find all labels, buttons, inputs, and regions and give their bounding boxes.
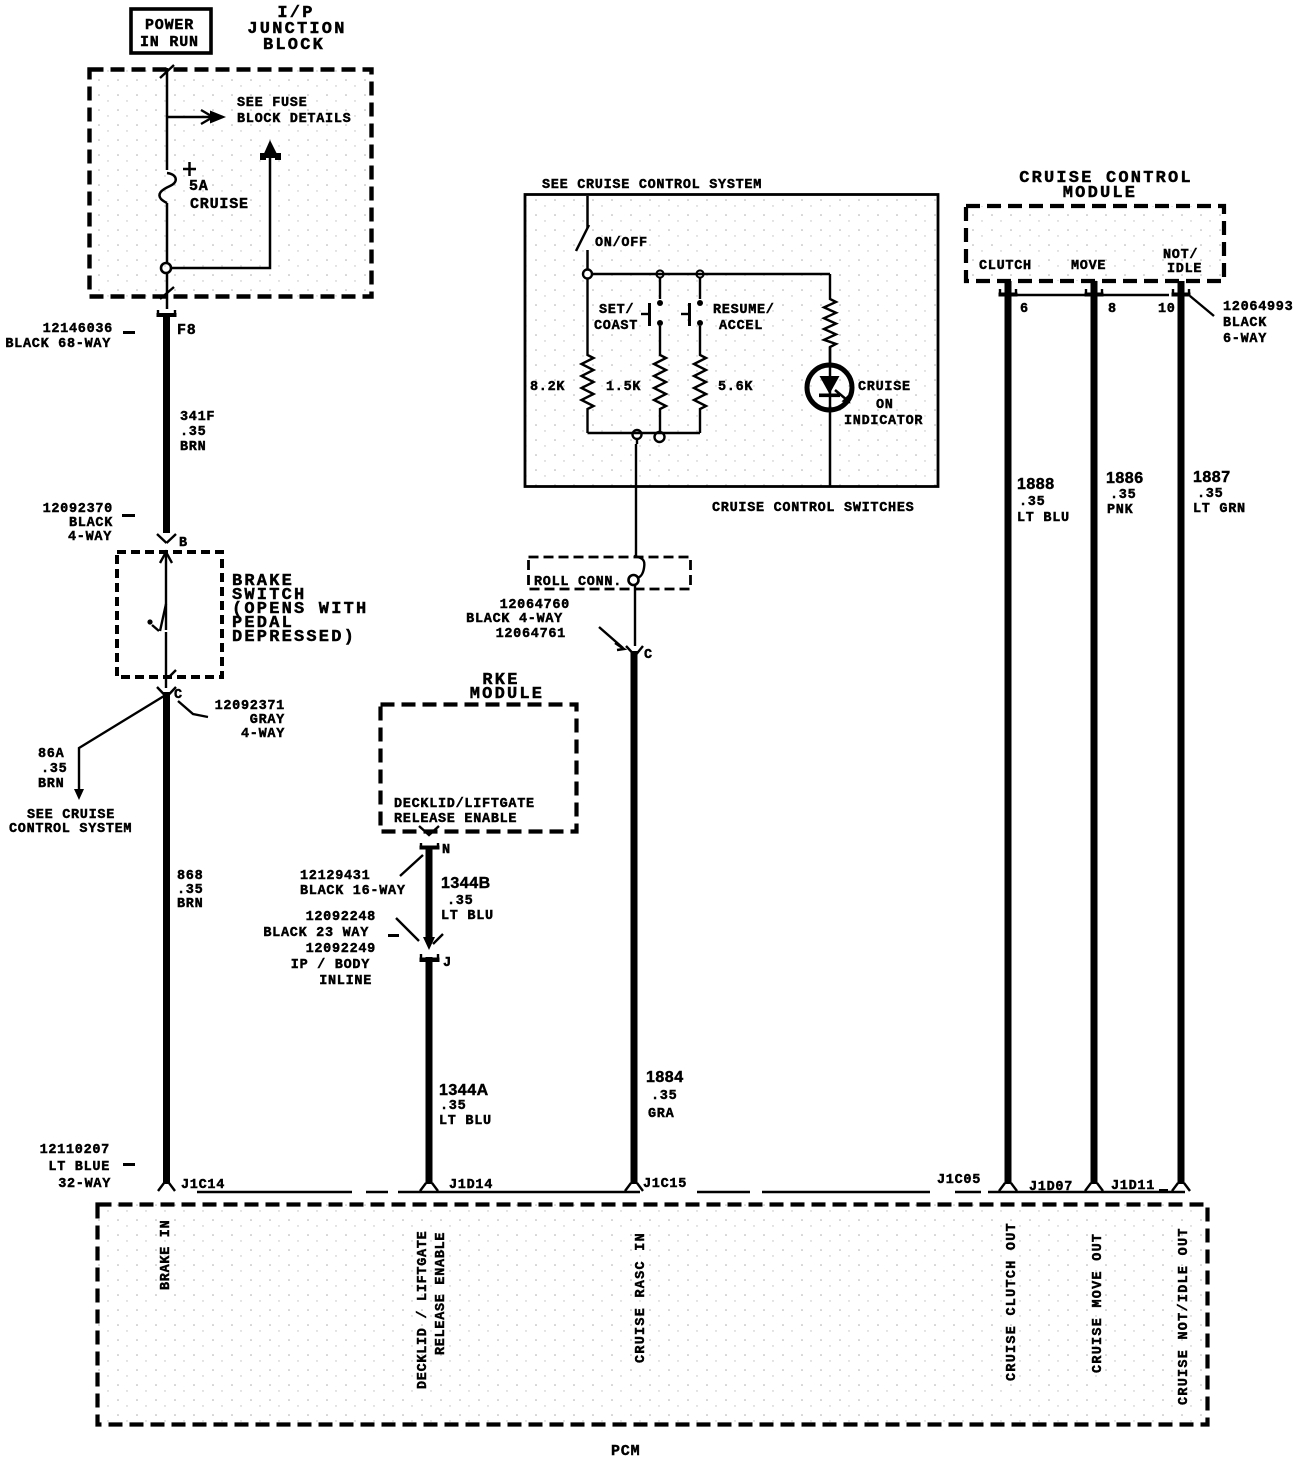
svg-text:RELEASE ENABLE: RELEASE ENABLE [394,812,517,827]
svg-text:12092370: 12092370 [43,502,113,517]
label 12146036 BLACK 68-WAY [5,322,135,352]
svg-text:12146036: 12146036 [43,322,113,337]
svg-text:NOT/: NOT/ [1163,248,1198,263]
svg-text:.35: .35 [1110,488,1136,503]
PCM dashed box [98,1205,1208,1425]
pin B of brake switch [157,534,188,551]
svg-text:CRUISE RASC IN: CRUISE RASC IN [634,1232,649,1363]
svg-text:LT BLUE: LT BLUE [48,1160,110,1175]
svg-text:ACCEL: ACCEL [719,319,763,334]
wire: LED to box bottom [829,406,832,486]
wire: roll connector to pin C [634,584,636,646]
svg-text:12064993: 12064993 [1223,300,1293,315]
label BRAKE IN [159,1220,174,1290]
svg-text:.35: .35 [177,883,203,898]
cruise control switches box [525,195,938,487]
I/P junction block dashed box [90,70,372,297]
svg-text:GRAY: GRAY [250,713,285,728]
svg-text:CRUISE: CRUISE [858,380,911,395]
label CRUISE NOT/IDLE OUT [1177,1227,1192,1405]
svg-text:.35: .35 [447,894,473,909]
svg-text:5.6K: 5.6K [718,380,753,395]
label 12110207 LT BLUE 32-WAY [40,1143,135,1192]
node: set/coast tap [656,270,663,277]
svg-text:POWER: POWER [145,17,194,34]
svg-text:MODULE: MODULE [1063,184,1137,203]
wire 1344A .35 LT BLU [429,957,492,1184]
wire: PCM connector face line [197,1191,1185,1193]
svg-text:J: J [443,956,452,971]
svg-text:.35: .35 [1019,495,1045,510]
svg-text:8: 8 [1108,302,1117,317]
svg-text:1884: 1884 [646,1069,684,1086]
svg-text:12129431: 12129431 [300,869,370,884]
svg-text:N: N [442,843,451,858]
wire: box top to on/off switch [586,196,589,228]
svg-text:IP / BODY: IP / BODY [291,958,370,973]
wire: fuse to node [166,203,169,263]
svg-text:LT BLU: LT BLU [441,909,494,924]
svg-text:ON/OFF: ON/OFF [595,236,648,251]
pin C of brake switch [157,687,183,703]
svg-text:868: 868 [177,869,203,884]
connector F8 (12146036 BLACK 68-WAY) [157,310,197,339]
node: output tap [633,430,642,439]
pin C of roll connector [626,646,653,663]
svg-text:ROLL CONN.: ROLL CONN. [534,575,622,590]
svg-text:BLOCK: BLOCK [263,36,325,55]
pin J inline connector [420,954,452,971]
svg-text:12092249: 12092249 [306,942,376,957]
svg-text:6-WAY: 6-WAY [1223,332,1267,347]
label SEE CRUISE CONTROL SYSTEM (box title) [542,178,762,193]
node J1C15 [625,1177,687,1192]
label SEE FUSE BLOCK DETAILS [237,96,351,127]
svg-text:LT GRN: LT GRN [1193,502,1246,517]
svg-text:4-WAY: 4-WAY [68,530,112,545]
svg-text:1344A: 1344A [439,1082,489,1099]
switch SET/COAST [594,278,663,334]
svg-text:IN RUN: IN RUN [140,34,199,51]
pin 8 [1085,289,1117,317]
wire 868 .35 BRN [167,692,204,1184]
svg-text:.35: .35 [41,762,67,777]
label CRUISE RASC IN [634,1232,649,1363]
node J1D07 [1029,1180,1103,1195]
svg-text:12064761: 12064761 [496,627,566,642]
wire: branch arrow to fuse block details [167,110,226,124]
LED CRUISE ON INDICATOR [807,347,923,429]
label 12092370 BLACK 4-WAY [43,502,135,545]
wire: node to box exit [160,273,174,309]
svg-text:86A: 86A [38,747,65,762]
svg-text:1887: 1887 [1193,469,1231,486]
svg-text:PCM: PCM [611,1443,640,1460]
svg-text:PNK: PNK [1107,503,1134,518]
svg-text:B: B [179,536,188,551]
wire: on/off to node [586,250,589,269]
svg-text:1.5K: 1.5K [606,380,641,395]
brake switch dashed box [117,552,222,677]
I/P JUNCTION BLOCK title [247,4,346,55]
wire: power feed into junction block [160,65,174,170]
wire 1344B .35 LT BLU [423,849,494,950]
node: resume/accel tap [696,270,703,277]
svg-text:J1C14: J1C14 [181,1178,225,1193]
label CRUISE MOVE OUT [1091,1233,1106,1373]
node: junction circle [161,263,171,273]
svg-text:LT BLU: LT BLU [439,1114,492,1129]
wire 86A .35 BRN branch to cruise control system [38,696,164,800]
label DECKLID/LIFTGATE RELEASE ENABLE [394,797,535,827]
svg-text:BLACK 68-WAY: BLACK 68-WAY [5,337,111,352]
svg-text:BRAKE IN: BRAKE IN [159,1220,174,1290]
svg-text:12110207: 12110207 [40,1143,110,1158]
RKE MODULE title [470,671,544,704]
svg-text:.35: .35 [651,1089,677,1104]
svg-text:8.2K: 8.2K [530,380,565,395]
node: main junction [583,270,592,279]
svg-text:1888: 1888 [1017,476,1055,493]
svg-text:DECKLID / LIFTGATE: DECKLID / LIFTGATE [416,1231,431,1389]
svg-text:SEE CRUISE CONTROL SYSTEM: SEE CRUISE CONTROL SYSTEM [542,178,762,193]
svg-text:32-WAY: 32-WAY [58,1177,111,1192]
label CRUISE CLUTCH OUT [1005,1222,1020,1381]
svg-text:BLACK 16-WAY: BLACK 16-WAY [300,884,406,899]
label 12064993 BLACK 6-WAY with pointer [1190,296,1293,347]
CRUISE CONTROL MODULE title [1019,169,1193,203]
svg-text:CONTROL SYSTEM: CONTROL SYSTEM [9,822,132,837]
svg-text:SET/: SET/ [599,303,634,318]
svg-text:ON: ON [876,398,894,413]
svg-text:COAST: COAST [594,319,638,334]
svg-text:GRA: GRA [648,1107,675,1122]
wire 1886 .35 PNK [1094,281,1144,1184]
label SEE CRUISE CONTROL SYSTEM (left) [9,808,132,837]
svg-text:CRUISE MOVE OUT: CRUISE MOVE OUT [1091,1233,1106,1373]
svg-text:12092371: 12092371 [215,699,285,714]
svg-text:BRN: BRN [177,897,203,912]
coil symbol in roll connector [629,556,645,585]
wire: bottom rail [588,432,701,435]
svg-text:BLOCK DETAILS: BLOCK DETAILS [237,112,351,127]
svg-text:.35: .35 [440,1099,466,1114]
svg-text:1886: 1886 [1106,470,1144,487]
svg-text:IDLE: IDLE [1167,262,1202,277]
svg-text:LT BLU: LT BLU [1017,511,1070,526]
svg-text:DECKLID/LIFTGATE: DECKLID/LIFTGATE [394,797,535,812]
wire: horizontal bus [592,273,830,276]
svg-text:CRUISE NOT/IDLE OUT: CRUISE NOT/IDLE OUT [1177,1227,1192,1405]
pin 6 [999,289,1029,317]
svg-text:CRUISE CLUTCH OUT: CRUISE CLUTCH OUT [1005,1222,1020,1381]
svg-text:INDICATOR: INDICATOR [844,414,923,429]
label DECKLID / LIFTGATE RELEASE ENABLE [416,1231,449,1389]
label 12129431 BLACK 16-WAY with pointer [300,855,423,899]
wire 341F .35 BRN [167,317,216,533]
svg-text:F8: F8 [177,322,197,339]
svg-text:SEE CRUISE: SEE CRUISE [27,808,115,823]
svg-text:4-WAY: 4-WAY [241,727,285,742]
RKE output notch [419,826,439,835]
label CRUISE CONTROL SWITCHES [712,501,914,516]
POWER IN RUN box [131,9,211,53]
svg-text:RELEASE ENABLE: RELEASE ENABLE [434,1232,449,1355]
svg-text:MOVE: MOVE [1071,259,1106,274]
wire: node to arrow A [171,140,281,268]
svg-text:10: 10 [1158,302,1176,317]
label MOVE [1071,259,1106,274]
svg-text:INLINE: INLINE [319,974,372,989]
svg-text:BRN: BRN [38,777,64,792]
svg-text:BLACK: BLACK [69,516,113,531]
label NOT/IDLE [1163,248,1202,277]
label 12092371 GRAY 4-WAY with pointer [178,699,285,742]
switch ON/OFF [576,225,648,251]
fuse F 5A CRUISE [159,162,248,213]
svg-text:12092248: 12092248 [306,910,376,925]
cruise control module dashed box [966,206,1224,281]
resistor: indicator dropping resistor [824,274,836,364]
node J1C05 [937,1173,1017,1192]
svg-text:.35: .35 [1197,487,1223,502]
label PCM [611,1443,640,1460]
svg-text:CLUTCH: CLUTCH [979,259,1032,274]
label 12064760 BLACK 4-WAY 12064761 with pointer [466,598,624,650]
wire: switches output to roll connector [636,439,637,557]
node J1C14 [158,1178,225,1193]
node J1D11 [1111,1179,1190,1194]
svg-text:SEE FUSE: SEE FUSE [237,96,307,111]
svg-text:MODULE: MODULE [470,685,544,704]
switch RESUME/ACCEL [681,278,775,334]
label CLUTCH [979,259,1032,274]
svg-text:BRN: BRN [180,440,206,455]
resistor 8.2K [530,278,594,433]
node J1D14 [420,1178,493,1193]
RKE module dashed box [381,705,577,832]
svg-text:BLACK 4-WAY: BLACK 4-WAY [466,612,563,627]
label BRAKE SWITCH (OPENS WITH PEDAL DEPRESSED) [232,572,368,647]
svg-text:1344B: 1344B [441,875,491,892]
brake switch contacts and blade [147,552,176,688]
svg-text:5A: 5A [189,178,209,195]
node: rail tap [655,432,665,442]
svg-text:CRUISE: CRUISE [190,196,249,213]
svg-text:C: C [644,648,653,663]
wire 1887 .35 LT GRN [1181,281,1246,1184]
svg-text:BLACK: BLACK [1223,316,1267,331]
resistor 1.5K [606,326,666,433]
wire 1888 .35 LT BLU [1008,281,1070,1184]
roll connector dashed box [529,557,691,590]
wire 1884 .35 GRA [634,651,684,1184]
connector bar of 6-way connector [1017,294,1169,296]
svg-text:J1D14: J1D14 [449,1178,493,1193]
svg-text:6: 6 [1020,302,1029,317]
resistor 5.6K [694,326,753,433]
svg-text:J1C15: J1C15 [643,1177,687,1192]
label 12092248 BLACK 23 WAY 12092249 IP / BODY INLINE with pointer [263,910,419,989]
pin 10 [1158,289,1191,317]
svg-text:12064760: 12064760 [500,598,570,613]
svg-text:BLACK 23 WAY: BLACK 23 WAY [263,926,369,941]
pin N of RKE module [420,843,451,858]
svg-text:CRUISE CONTROL SWITCHES: CRUISE CONTROL SWITCHES [712,501,914,516]
svg-text:RESUME/: RESUME/ [713,303,775,318]
svg-text:DEPRESSED): DEPRESSED) [232,628,356,647]
svg-text:341F: 341F [180,410,215,425]
svg-text:.35: .35 [180,425,206,440]
svg-text:J1C05: J1C05 [937,1173,981,1188]
